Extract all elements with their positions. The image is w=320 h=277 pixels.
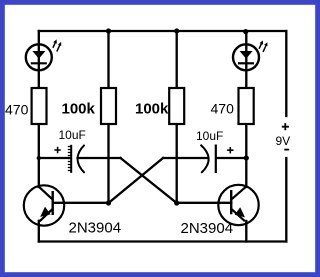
junction node rail-B [106,28,111,33]
wire: cross-coupling diagonal C1 to Q2 base node [121,158,177,203]
wire: right cap row from diagonal start to C2 arc [163,157,208,159]
LED D2 [233,40,267,70]
wire: column D (LED2 + R 470 right) rail through LED to resistor [245,31,247,88]
resistor R4 470 right [239,88,254,124]
polarity plus C2 [227,147,233,153]
wire: column B rail stub [107,31,109,88]
polarity plus C1 [54,147,60,153]
svg-text:2N3904: 2N3904 [69,220,122,237]
junction node rail-D [243,29,248,34]
wire: top supply rail [39,30,286,32]
svg-text:100k: 100k [135,100,169,117]
wire: right cap row from C2 plate to column D [217,157,247,159]
wire: column C resistor to base node [176,124,178,203]
svg-text:9V: 9V [276,134,291,148]
svg-text:2N3904: 2N3904 [181,220,234,237]
wire: column C (100k right) rail stub [176,31,178,88]
wire: Q1 emitter to bottom rail [38,221,40,242]
capacitor C2 10uF (right, polarized) [201,145,216,174]
battery plus terminal [282,123,289,130]
capacitor C1 10uF (left, polarized) [68,145,85,173]
wire: right cap row diagonal to Q1 base node [109,158,164,203]
svg-text:100k: 100k [62,100,96,117]
resistor R1 470 left [32,88,47,124]
transistor Q1 2N3904 (left, NPN mirrored) [24,185,64,225]
svg-text:10uF: 10uF [59,128,86,142]
transistor Q2 2N3904 (right, NPN) [218,185,258,225]
LED D1 [26,39,61,70]
wire: right battery column top segment [285,31,287,116]
junction node C1-column A [37,156,41,160]
svg-text:470: 470 [211,101,235,117]
wire: column A from resistor bottom to Q1 collector [38,124,40,187]
resistor R2 100k left [101,88,116,124]
wire: column D resistor bottom to cap junction to Q2 collector [245,124,247,187]
battery minus terminal [284,149,289,151]
wire: column B (100k left) resistor to base node [107,124,109,203]
junction node Q1 base [106,200,111,205]
wire: left cap row from C1 arc to diagonal start [78,157,121,159]
svg-text:10uF: 10uF [196,129,223,143]
wire: right battery column bottom segment [285,158,287,242]
wire: Q1 base wire [53,202,109,204]
resistor R3 100k right [169,88,184,124]
svg-text:470: 470 [5,102,29,118]
wire: column A (LED1 + R 470 left) from rail through LED to resistor [38,31,40,88]
wire: left cap row from column A to C1 plate [39,157,70,159]
wire: Q2 base wire [177,202,232,204]
wire: bottom ground rail [39,240,286,242]
junction node C2-column D [244,155,249,160]
junction node Q2 base [174,200,179,205]
wire: Q2 emitter to bottom rail [245,221,247,242]
junction node rail-C [174,28,179,33]
